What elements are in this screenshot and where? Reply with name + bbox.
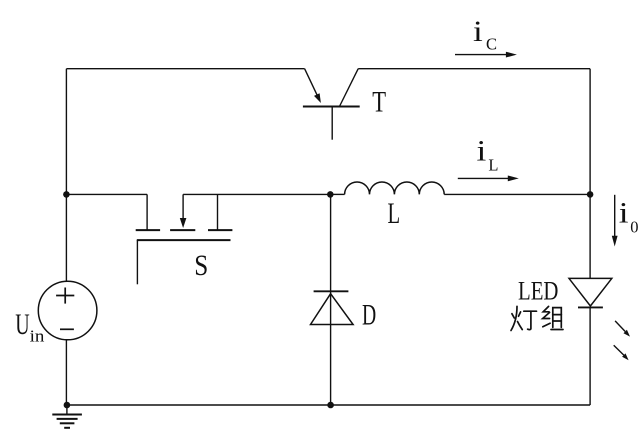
LED emission arrow 2 xyxy=(614,345,629,360)
source plus sign xyxy=(56,288,74,304)
svg-text:L: L xyxy=(488,156,498,175)
svg-text:S: S xyxy=(194,249,208,282)
source Uin circle xyxy=(38,281,97,340)
wire left rail lower xyxy=(65,340,67,405)
wire right rail lower xyxy=(589,307,591,405)
wire inductor lead left xyxy=(330,193,344,195)
svg-text:U: U xyxy=(15,308,30,341)
current label i0 with arrow xyxy=(612,195,618,247)
wire mid left segment xyxy=(66,193,147,195)
node junction ground xyxy=(64,402,71,409)
diode D xyxy=(311,291,354,324)
svg-text:i: i xyxy=(473,15,483,48)
svg-text:L: L xyxy=(388,197,401,230)
node junction diode bottom xyxy=(327,402,334,409)
inductor L xyxy=(345,182,445,194)
wire inductor to right rail xyxy=(444,193,590,195)
svg-text:T: T xyxy=(372,86,386,119)
node junction center mid xyxy=(327,191,334,198)
label zu (group) hanzi drawn xyxy=(543,306,563,329)
svg-text:i: i xyxy=(619,197,629,230)
source minus sign xyxy=(60,328,74,330)
LED diode symbol xyxy=(569,278,612,307)
svg-text:C: C xyxy=(486,35,497,54)
label deng (lamp) hanzi drawn xyxy=(511,306,537,330)
node junction right mid xyxy=(587,191,594,198)
current label iC with arrow xyxy=(455,52,517,58)
wire left rail upper xyxy=(65,69,67,282)
node junction left mid xyxy=(63,191,70,198)
LED emission arrow 1 xyxy=(615,321,630,337)
wire right rail upper xyxy=(589,69,591,279)
current label iL with arrow xyxy=(458,176,519,182)
svg-text:i: i xyxy=(477,134,487,167)
svg-text:D: D xyxy=(362,299,376,332)
wire mid right segment xyxy=(183,193,330,195)
transistor T xyxy=(303,69,360,140)
svg-text:in: in xyxy=(30,326,45,345)
wire bottom horizontal xyxy=(66,404,590,406)
label Uin xyxy=(15,308,44,346)
mosfet S xyxy=(136,194,233,284)
wire top right horizontal xyxy=(358,68,590,70)
svg-text:LED: LED xyxy=(518,276,558,306)
ground xyxy=(52,405,82,428)
wire diode branch vertical xyxy=(330,194,332,405)
svg-text:0: 0 xyxy=(630,218,638,237)
wire top left horizontal xyxy=(66,68,304,70)
